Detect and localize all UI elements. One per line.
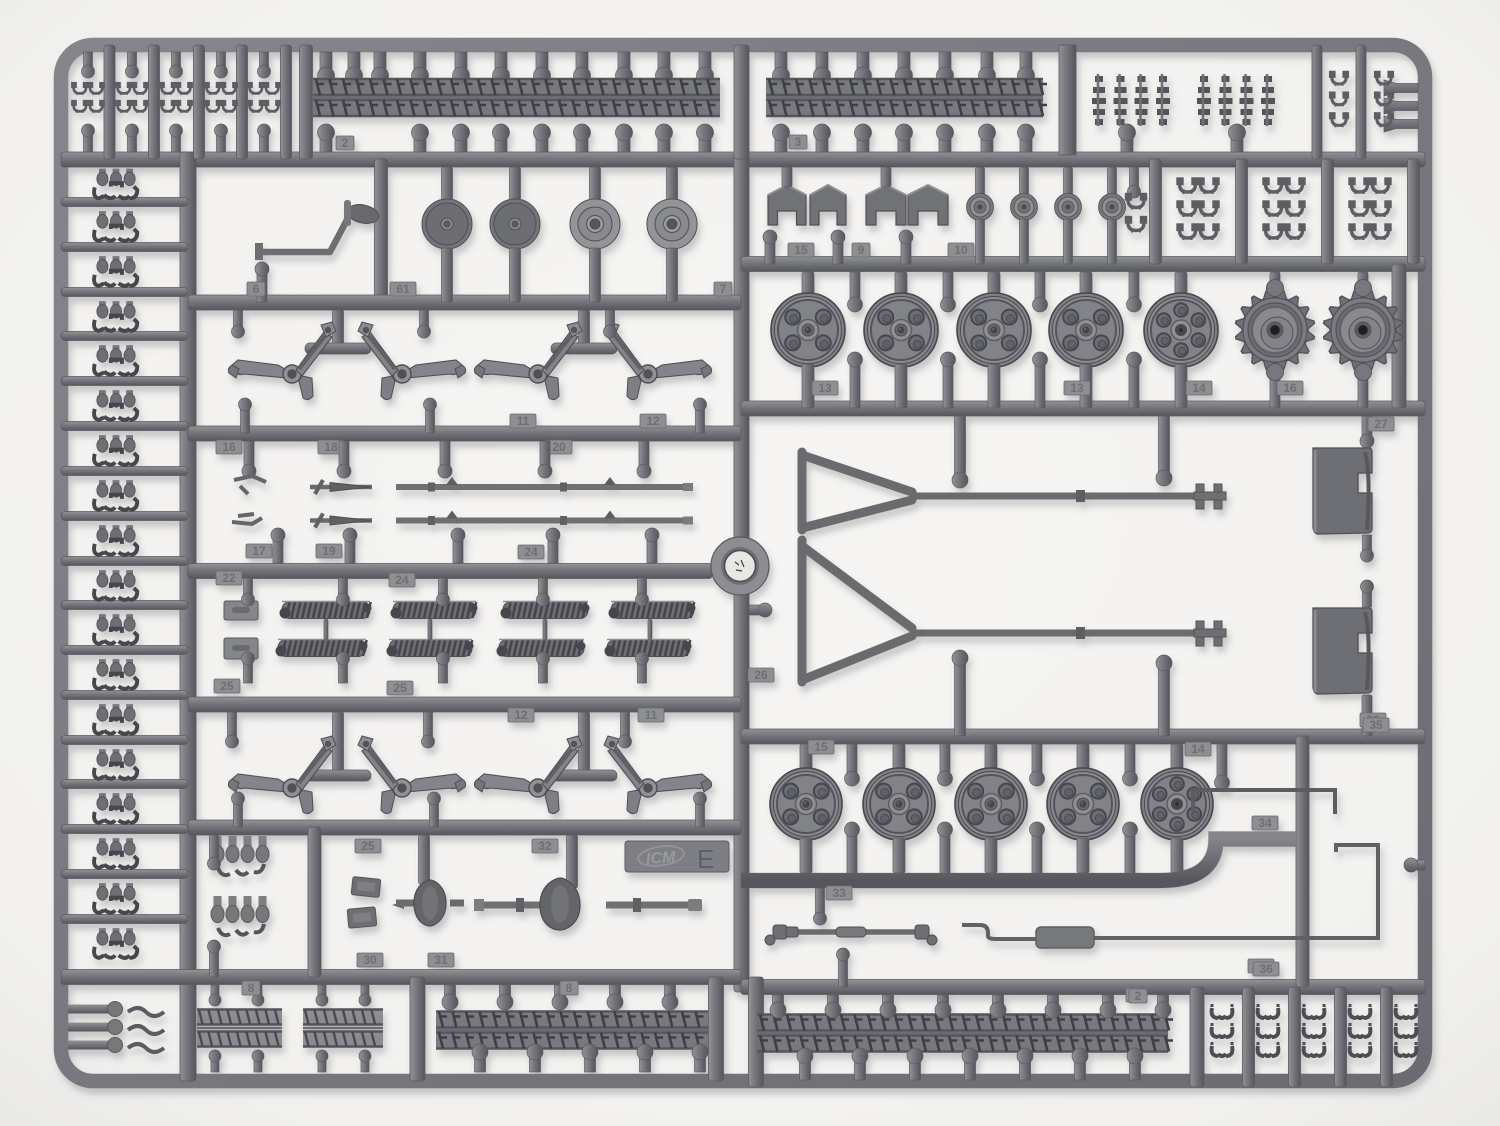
- svg-text:13: 13: [818, 381, 832, 395]
- return roller small wheel 2: [1011, 194, 1038, 221]
- part number tag 8: [560, 981, 578, 995]
- long axle part 32: [474, 878, 702, 930]
- runner V3b lower left: [308, 827, 321, 977]
- svg-text:10: 10: [954, 243, 968, 257]
- ladder track cluster 14: [94, 749, 137, 779]
- suspension spring bottom 1: [276, 640, 368, 657]
- top-left cluster divider 1: [104, 45, 115, 159]
- runner HR4 left: [188, 564, 712, 579]
- part number tag 33: [826, 886, 852, 900]
- svg-text:17: 17: [252, 544, 266, 558]
- single link column: [1127, 195, 1146, 233]
- T gate crossbar row2: [305, 770, 371, 781]
- ladder track cluster 13: [94, 704, 137, 734]
- row2 track link cluster 1: [1178, 179, 1218, 240]
- runner HR2 right: [741, 257, 1425, 272]
- part number tag 25: [214, 679, 240, 693]
- road wheel row2 2: [863, 768, 935, 840]
- road wheel row2 five six-hole: [1141, 768, 1213, 840]
- row2 track cell divider 4: [1408, 159, 1420, 264]
- svg-text:20: 20: [552, 440, 566, 454]
- bottom-left bulb pin 3: [68, 1038, 123, 1053]
- part number tag 31: [428, 953, 454, 967]
- elbow runner edge: [741, 839, 1296, 881]
- row2 track link cluster 3: [1350, 179, 1390, 240]
- top-left cluster divider 2: [149, 45, 160, 159]
- svg-text:16: 16: [1283, 381, 1297, 395]
- part number tag 36: [1253, 962, 1279, 976]
- part number tag 61: [390, 282, 416, 296]
- svg-text:61: 61: [396, 282, 410, 296]
- long track strip top left: [313, 78, 720, 117]
- part number tag 7: [714, 282, 732, 296]
- bottom right W cluster 5: [1396, 1004, 1417, 1056]
- pin cluster left 2: [211, 896, 269, 935]
- ladder rung 4: [61, 332, 188, 341]
- road wheel 2 part 13: [864, 293, 938, 367]
- gate under crank: [255, 262, 269, 302]
- runner V4 top segment: [734, 45, 749, 159]
- top right horizontal link cluster block 2: [1197, 74, 1275, 126]
- svg-text:12: 12: [514, 708, 528, 722]
- svg-text:30: 30: [363, 953, 377, 967]
- svg-text:18: 18: [324, 440, 338, 454]
- mudguard bracket part d: [908, 185, 948, 225]
- ladder track cluster 7: [94, 435, 137, 465]
- svg-text:15: 15: [814, 740, 828, 754]
- part number tag 13: [812, 381, 838, 395]
- ladder track cluster 2: [94, 211, 137, 241]
- svg-text:32: 32: [538, 839, 552, 853]
- ladder track cluster 10: [94, 570, 137, 600]
- top strip gates from frame: [318, 52, 335, 84]
- part number tag 15: [808, 740, 834, 754]
- bottom right cluster divider 4: [1381, 987, 1393, 1087]
- mud flap part 28 a: [1313, 448, 1372, 534]
- small box part 30: [351, 877, 381, 898]
- top right corner divider 2: [1356, 45, 1366, 159]
- long track strip top right: [766, 78, 1047, 117]
- part number tag 16: [1277, 381, 1303, 395]
- part number tag 28: [1360, 713, 1386, 727]
- svg-text:12: 12: [646, 414, 660, 428]
- top-left cluster divider 3: [194, 45, 205, 159]
- ladder rung 2: [61, 243, 188, 252]
- part number tag 10: [948, 243, 974, 257]
- right frame tapered gate pin 1: [1384, 80, 1418, 96]
- svg-text:24: 24: [524, 545, 538, 559]
- part number tag 22: [216, 571, 242, 585]
- part number tag 36: [1248, 959, 1274, 973]
- road wheel row2 3: [955, 768, 1027, 840]
- row2 track cell divider 1: [1150, 159, 1162, 264]
- svg-text:24: 24: [395, 573, 409, 587]
- ladder rung 12: [61, 691, 188, 700]
- part number tag 11: [638, 708, 664, 722]
- ladder rung 3: [61, 288, 188, 297]
- ladder rung 17: [61, 915, 188, 924]
- part number tag 17: [246, 544, 272, 558]
- runner HR7 right: [741, 980, 1425, 995]
- gate stem to long axle: [567, 835, 578, 888]
- part number tag 25: [387, 681, 413, 695]
- drive sprocket 1 part 16: [1236, 291, 1315, 370]
- drive shaft with U-joints part 33: [765, 925, 937, 945]
- idler drum wheel 4: [647, 199, 697, 249]
- idler drum wheel 3: [570, 199, 620, 249]
- part number tag 2: [1126, 988, 1144, 1002]
- part number tag 32: [532, 839, 558, 853]
- suspension arm 11 b: [358, 322, 466, 400]
- suspension arm row2 a: [228, 736, 336, 814]
- suspension arm 11 a: [228, 322, 336, 400]
- part number tag 9: [852, 243, 870, 257]
- tow bar A rod: [912, 493, 1200, 500]
- T gate stem arms row2 pair2: [579, 712, 590, 772]
- svg-text:25: 25: [220, 679, 234, 693]
- runner HR6b with elbow: [741, 839, 1296, 881]
- tow bar A collar: [1076, 490, 1085, 502]
- bottom row divider right of center: [749, 977, 764, 1087]
- tow frame B bars part 26: [802, 540, 912, 682]
- row2 track cell divider 3: [1322, 159, 1334, 264]
- top-left track link cluster 2: [116, 83, 147, 113]
- part number tag 16: [216, 440, 242, 454]
- ladder track cluster 11: [94, 614, 137, 644]
- top right corner track cluster b: [1375, 72, 1392, 127]
- tow frame A bars part 26: [802, 452, 912, 530]
- bottom right W cluster 3: [1304, 1004, 1325, 1056]
- top strip right gates from frame: [773, 52, 790, 84]
- road wheel row2 1: [770, 768, 842, 840]
- suspension spring bottom 2: [387, 640, 474, 657]
- svg-text:6: 6: [253, 282, 260, 296]
- row2 track cell divider 2: [1236, 159, 1248, 264]
- part number tag 25: [355, 839, 381, 853]
- suspension spring top 2: [391, 602, 478, 619]
- runner HR6 right: [741, 729, 1425, 744]
- top-left track link cluster 3: [160, 83, 191, 113]
- ladder rung 9: [61, 557, 188, 566]
- frame side gate right: [1404, 858, 1425, 872]
- runner HR3 right: [741, 401, 1425, 416]
- ladder rung 7: [61, 467, 188, 476]
- part number tag 19: [316, 544, 342, 558]
- svg-text:2: 2: [342, 136, 349, 150]
- top right corner track cluster a: [1330, 72, 1347, 127]
- ladder rung 10: [61, 601, 188, 610]
- drive sprocket 2 part 16: [1324, 291, 1403, 370]
- svg-text:14: 14: [1191, 742, 1205, 756]
- bottom-left W links: [128, 1008, 164, 1052]
- part number tag 18: [318, 440, 344, 454]
- part number tag 11: [510, 414, 536, 428]
- road wheel 4 part 13: [1049, 293, 1123, 367]
- mudguard bracket part b: [810, 185, 846, 225]
- part number tag 6: [247, 282, 265, 296]
- svg-text:2: 2: [1135, 989, 1142, 1003]
- suspension spring top 3: [501, 602, 590, 619]
- svg-text:26: 26: [754, 668, 768, 682]
- return roller small wheel 1: [967, 194, 994, 221]
- bent wire rod part 34: [1193, 790, 1335, 814]
- small differential axle part 30: [392, 880, 464, 926]
- gate stub from V4 right side: [749, 603, 772, 617]
- part number tag 15: [788, 243, 814, 257]
- ladder track cluster 12: [94, 659, 137, 689]
- vertical runner right lower: [1296, 736, 1309, 987]
- T gate stem arms row1 pair2: [579, 310, 590, 345]
- ladder track cluster 15: [94, 793, 137, 823]
- right frame tapered gate pin 2: [1384, 98, 1418, 114]
- ladder rung 13: [61, 736, 188, 745]
- idler drum wheel 2: [490, 199, 540, 249]
- ladder track cluster 9: [94, 525, 137, 555]
- top right horizontal link cluster block 1: [1092, 74, 1170, 126]
- vertical right of sprockets: [1392, 264, 1406, 408]
- long notched axle rod part: [396, 477, 693, 492]
- svg-text:14: 14: [1192, 381, 1206, 395]
- T gate crossbar 2: [551, 343, 617, 354]
- bottom right W cluster 4: [1350, 1004, 1371, 1056]
- ladder track cluster 4: [94, 301, 137, 331]
- tow bar B rod: [912, 630, 1200, 637]
- svg-text:22: 22: [222, 571, 236, 585]
- runner HR6 left: [188, 820, 741, 835]
- road wheel row2 4: [1047, 768, 1119, 840]
- T gate crossbar: [305, 343, 371, 354]
- ladder rung 1: [61, 198, 188, 207]
- ladder rung 15: [61, 825, 188, 834]
- road wheel 5 six-hole part 14: [1144, 293, 1218, 367]
- ball gate: [1355, 364, 1372, 381]
- svg-text:27: 27: [1374, 417, 1388, 431]
- ladder rung 5: [61, 377, 188, 386]
- vertical V at left end of top track strip: [300, 45, 313, 159]
- mud flap part 28 b: [1313, 608, 1372, 694]
- gate below cluster: [1229, 124, 1246, 152]
- suspension spring bottom 3: [497, 640, 586, 657]
- spring seat plate a: [224, 601, 258, 620]
- bottom mini track strip 2: [303, 1009, 383, 1048]
- svg-text:25: 25: [393, 681, 407, 695]
- right frame tapered gate pin 3: [1384, 116, 1418, 132]
- bottom right cluster divider 3: [1335, 987, 1347, 1087]
- part number tag 34: [1252, 816, 1278, 830]
- part number tag 8: [242, 981, 260, 995]
- ladder rung 11: [61, 646, 188, 655]
- pointed dart rod part: [310, 514, 372, 528]
- pin cluster left 1: [211, 836, 269, 875]
- gate below cluster: [1119, 124, 1136, 152]
- svg-text:8: 8: [566, 981, 573, 995]
- top-left cluster divider 5: [281, 45, 292, 159]
- bottom mini track strip 1: [197, 1009, 282, 1048]
- part number tag 12: [508, 708, 534, 722]
- top-left track link cluster 4: [205, 83, 236, 113]
- svg-text:7: 7: [720, 282, 727, 296]
- part number tag 24: [389, 573, 415, 587]
- bottom right W cluster 2: [1258, 1004, 1279, 1056]
- part number tag 14: [1186, 381, 1212, 395]
- svg-text:36: 36: [1259, 962, 1273, 976]
- svg-text:25: 25: [361, 839, 375, 853]
- bottom long track strip left: [436, 1011, 708, 1050]
- runner HR3 left: [188, 426, 741, 441]
- spring seat plate b: [224, 638, 258, 659]
- ball gate: [1267, 364, 1284, 381]
- ICM E logo plate: [625, 841, 729, 874]
- svg-text:19: 19: [322, 544, 336, 558]
- part number tag 27: [1368, 417, 1394, 431]
- ladder track cluster 6: [94, 390, 137, 420]
- injection gate ring E: [711, 537, 769, 595]
- svg-text:35: 35: [1369, 718, 1383, 732]
- runner HR7 left: [61, 970, 741, 985]
- ball gate: [1267, 280, 1284, 297]
- wide flat vertical bar top right: [1059, 45, 1076, 155]
- tow bar B end coupling: [1194, 621, 1226, 646]
- small box part 31: [347, 907, 377, 928]
- part number tag 2: [336, 136, 354, 150]
- road wheel 3 part 13: [957, 293, 1031, 367]
- svg-text:9: 9: [858, 243, 865, 257]
- gate stem to small axle: [419, 835, 430, 884]
- part number tag 24: [518, 545, 544, 559]
- ladder track cluster 8: [94, 480, 137, 510]
- pointed dart rod part: [310, 480, 372, 494]
- top-left track link cluster 5: [248, 83, 279, 113]
- (none): [1365, 408, 1367, 736]
- svg-text:8: 8: [248, 981, 255, 995]
- bottom right cluster divider 2: [1289, 987, 1301, 1087]
- ladder rung 6: [61, 422, 188, 431]
- svg-text:16: 16: [222, 440, 236, 454]
- mudguard bracket part a: [768, 185, 806, 225]
- ladder rung 8: [61, 512, 188, 521]
- ladder track cluster 17: [94, 883, 137, 913]
- bottom right W cluster 1: [1212, 1004, 1233, 1056]
- svg-text:34: 34: [1258, 816, 1272, 830]
- suspension arm 12 b: [604, 322, 712, 400]
- return roller small wheel 4: [1099, 194, 1126, 221]
- top-left cluster divider 4: [237, 45, 248, 159]
- part number tag 26: [748, 668, 774, 682]
- runner HR1 full width: [61, 152, 1425, 167]
- svg-text:31: 31: [434, 953, 448, 967]
- part number tag 14: [1185, 742, 1211, 756]
- ladder track cluster 3: [94, 256, 137, 286]
- return roller small wheel 3: [1055, 194, 1082, 221]
- suspension arm row2 b: [358, 736, 466, 814]
- runner HR2 left: [188, 295, 741, 310]
- T gate stem arms row2 pair1: [333, 712, 344, 772]
- suspension arm row2 d: [604, 736, 712, 814]
- runner HR5 left: [188, 697, 741, 712]
- ladder track cluster 16: [94, 838, 137, 868]
- svg-text:E: E: [697, 844, 714, 874]
- part number tag 20: [546, 440, 572, 454]
- part number tag 35: [1363, 718, 1389, 732]
- part number tag 3: [789, 135, 807, 149]
- part number tag 13: [1064, 381, 1090, 395]
- ladder track cluster 18: [94, 928, 137, 958]
- bottom row divider right section: [1190, 987, 1204, 1087]
- small clamp parts 17/19: [232, 476, 266, 524]
- ladder track cluster 5: [94, 345, 137, 375]
- ladder rung 16: [61, 870, 188, 879]
- T gate stem arms row1 pair1: [333, 310, 344, 345]
- ladder rung 14: [61, 780, 188, 789]
- part number tag 12: [640, 414, 666, 428]
- runner V4 central vertical: [734, 152, 749, 992]
- bottom long track strip right: [757, 1014, 1173, 1053]
- svg-text:3: 3: [795, 135, 802, 149]
- crank handle part 6: [255, 200, 381, 260]
- part number tag 30: [357, 953, 383, 967]
- bottom-left bulb pin 1: [68, 1002, 123, 1017]
- suspension spring top 4: [609, 602, 696, 619]
- road wheel 1 part 13: [771, 293, 845, 367]
- ladder track cluster 1: [94, 169, 137, 199]
- suspension arm row2 c: [474, 736, 582, 814]
- tow bar B collar: [1076, 627, 1085, 639]
- suspension spring bottom 4: [605, 640, 692, 657]
- svg-text:11: 11: [645, 708, 658, 722]
- top-left track link cluster 1: [72, 83, 103, 113]
- svg-text:33: 33: [832, 886, 846, 900]
- runner V3 between crank cell and drum wheels cell: [375, 159, 388, 302]
- svg-text:13: 13: [1070, 381, 1084, 395]
- long notched axle rod part: [396, 511, 693, 526]
- exhaust pipe with muffler part 36: [962, 845, 1378, 948]
- top right corner divider 1: [1312, 45, 1322, 159]
- suspension arm 12 a: [474, 322, 582, 400]
- row2 track link cluster 2: [1264, 179, 1304, 240]
- T gate crossbar row2 b: [551, 770, 617, 781]
- ball gate: [1355, 280, 1372, 297]
- mudguard bracket part c: [866, 185, 906, 225]
- bottom-left bulb pin 2: [68, 1020, 123, 1035]
- tow bar A end coupling: [1194, 484, 1226, 509]
- suspension spring top 1: [280, 602, 372, 619]
- svg-text:11: 11: [517, 414, 530, 428]
- runner V2 vertical: [180, 152, 196, 1081]
- svg-text:15: 15: [794, 243, 808, 257]
- bottom right cluster divider 1: [1243, 987, 1255, 1087]
- idler drum wheel 1: [422, 199, 472, 249]
- bottom row divider left of center: [709, 977, 724, 1081]
- bottom row divider mid-left: [410, 977, 425, 1081]
- part number tag 2: [1129, 989, 1147, 1003]
